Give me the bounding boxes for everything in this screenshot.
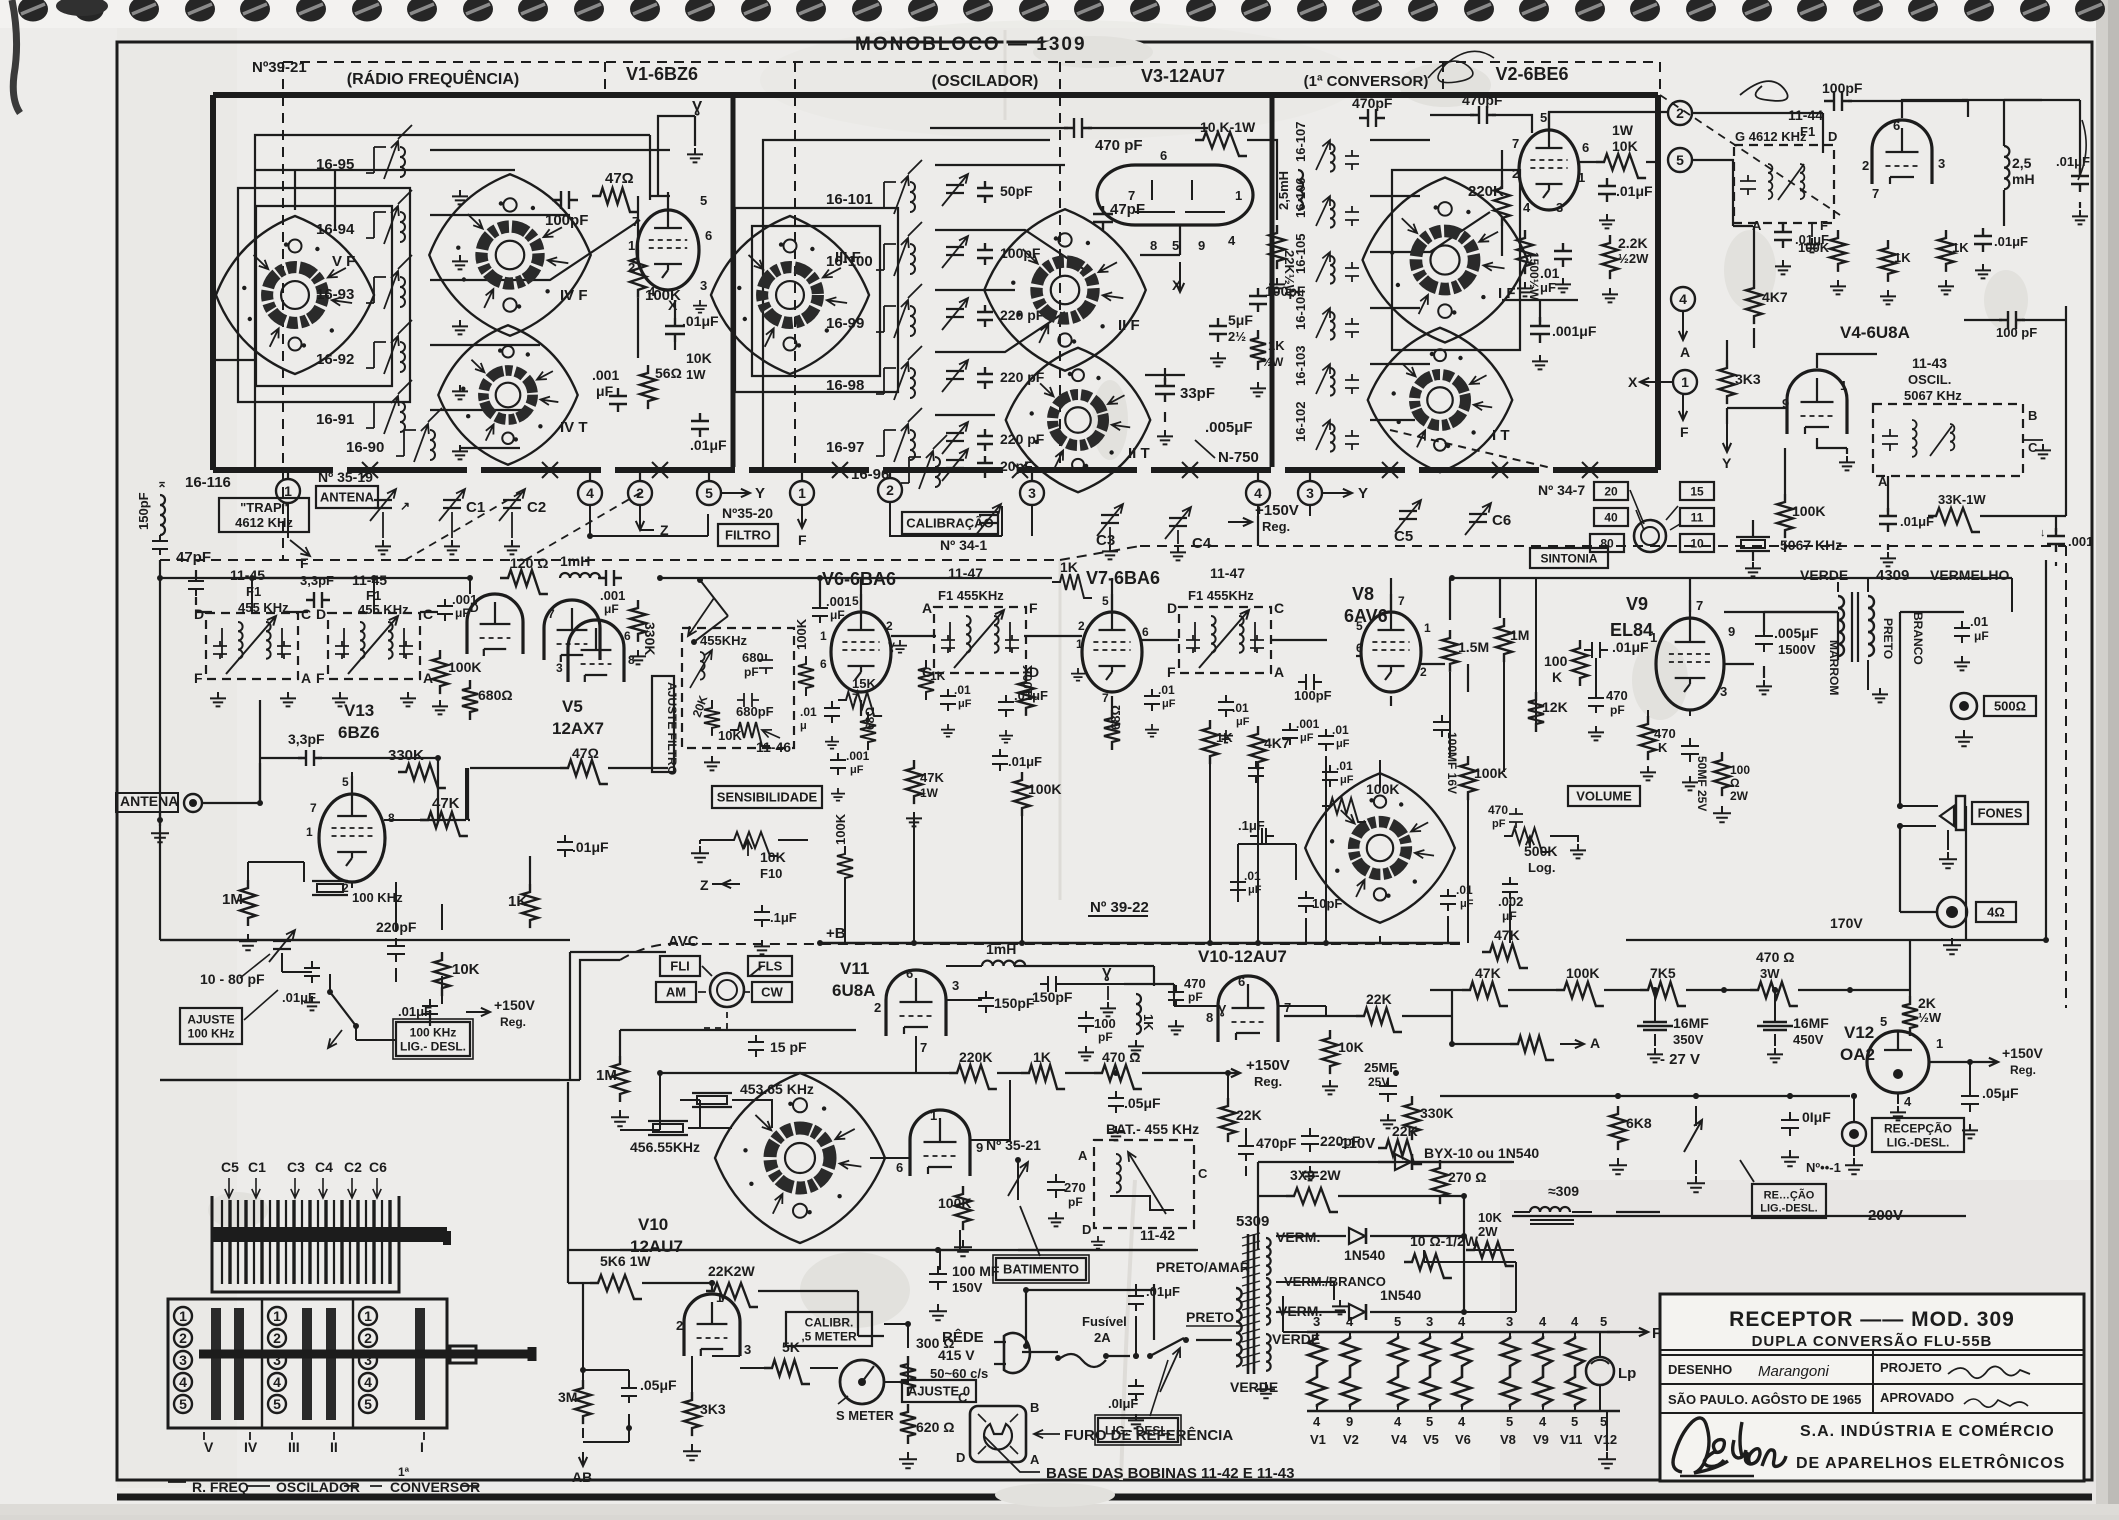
svg-text:5: 5: [1172, 238, 1179, 253]
svg-text:.005μF: .005μF: [1205, 419, 1253, 436]
capacitor 470pF conv: [1359, 109, 1385, 127]
heater F arrow: [1619, 1331, 1621, 1333]
svg-text:150pF: 150pF: [994, 995, 1035, 1011]
svg-text:μF: μF: [1540, 280, 1556, 295]
svg-text:F: F: [194, 670, 203, 686]
capacitor .05uF v10b: [621, 1381, 637, 1403]
capacitor .001uF v6 b: [830, 753, 846, 775]
capacitor .001uF v2: [1530, 317, 1550, 343]
svg-text:SINTONIA: SINTONIA: [1540, 551, 1597, 565]
svg-text:V12: V12: [1594, 1432, 1617, 1447]
svg-text:10.K-1W: 10.K-1W: [1200, 119, 1256, 135]
svg-text:V10-12AU7: V10-12AU7: [1198, 947, 1287, 966]
coil bank 16-99: [826, 284, 922, 338]
svg-text:4: 4: [364, 1374, 372, 1390]
svg-text:16-91: 16-91: [316, 411, 354, 428]
svg-text:16-106: 16-106: [1293, 178, 1308, 218]
svg-text:.05μF: .05μF: [640, 1377, 677, 1393]
svg-text:680pF: 680pF: [736, 704, 774, 719]
svg-text:II: II: [330, 1439, 338, 1455]
resistor 1K v7: [1202, 720, 1218, 764]
svg-text:A: A: [1878, 474, 1888, 489]
svg-text:7: 7: [310, 801, 317, 815]
svg-text:100K: 100K: [448, 659, 481, 675]
svg-text:- 27 V: - 27 V: [1660, 1051, 1700, 1068]
capacitor 150pF v11a: [978, 991, 994, 1013]
svg-text:8: 8: [1150, 238, 1157, 253]
svg-text:620 Ω: 620 Ω: [916, 1419, 954, 1435]
svg-text:F1: F1: [246, 584, 261, 599]
svg-text:1M: 1M: [222, 891, 243, 908]
inductor 1mH if: [560, 573, 600, 578]
capacitor 01uF recepcao: [1781, 1112, 1799, 1136]
capacitor .05uF v11: [1108, 1091, 1124, 1113]
delta logo: [1673, 1418, 1786, 1476]
svg-text:100K: 100K: [794, 618, 809, 650]
capacitor .005uF 1500V: [1755, 628, 1773, 652]
svg-text:.01μF: .01μF: [398, 1004, 432, 1019]
resistor 22K 1/2W v2: [1602, 235, 1618, 279]
resistor 22K v11: [1220, 1098, 1236, 1142]
tube V7 6BA6: [1082, 594, 1142, 692]
svg-text:μF: μF: [1460, 898, 1474, 910]
svg-text:100: 100: [1544, 653, 1568, 669]
svg-text:V10: V10: [638, 1215, 668, 1234]
svg-text:220 pF: 220 pF: [1000, 307, 1045, 323]
svg-text:16-95: 16-95: [316, 156, 354, 173]
svg-text:DE APARELHOS ELETRÔNICOS: DE APARELHOS ELETRÔNICOS: [1796, 1453, 2065, 1472]
diode BYX-10: [1395, 1154, 1412, 1170]
rotary wafer AF switch: [1305, 773, 1455, 923]
svg-text:1W: 1W: [1612, 122, 1634, 138]
svg-text:3: 3: [1028, 485, 1036, 501]
svg-text:μF: μF: [1236, 716, 1250, 728]
capacitor 50MF 25V: [1681, 738, 1699, 762]
svg-text:F: F: [1820, 218, 1828, 233]
svg-text:6BZ6: 6BZ6: [338, 723, 380, 742]
svg-text:100: 100: [1094, 1016, 1116, 1031]
svg-text:.01: .01: [954, 683, 971, 697]
svg-text:C5: C5: [1394, 528, 1413, 545]
svg-text:5μF: 5μF: [1228, 312, 1253, 328]
resistor 1K v11: [1021, 1065, 1065, 1089]
svg-text:100K: 100K: [1366, 781, 1399, 797]
svg-text:R. FREQ: R. FREQ: [192, 1479, 249, 1495]
svg-text:11-47: 11-47: [1210, 565, 1245, 581]
wire osc bank to wafer: [935, 165, 1085, 415]
svg-text:6: 6: [624, 629, 631, 643]
svg-text:V2: V2: [1343, 1432, 1359, 1447]
svg-text:μF: μF: [1340, 774, 1354, 786]
svg-text:A: A: [1680, 344, 1690, 360]
svg-text:5: 5: [1394, 1314, 1401, 1329]
capacitor .01uF v13 b: [422, 999, 438, 1021]
svg-text:1K: 1K: [930, 669, 946, 683]
wire v5 to v6 bus: [660, 578, 820, 606]
resistor 22K v10 plate: [1356, 1008, 1402, 1032]
svg-text:Ω: Ω: [1730, 776, 1740, 790]
svg-text:6: 6: [1142, 625, 1149, 639]
tube V11a triode: [886, 970, 946, 1036]
svg-text:16-102: 16-102: [1293, 402, 1308, 442]
svg-text:8: 8: [388, 811, 395, 825]
capacitor 470pF v10: [1168, 985, 1184, 1007]
svg-text:C: C: [1274, 600, 1284, 616]
terminal 1 antenna row: [276, 479, 300, 503]
capacitor .05uF v12: [1961, 1088, 1979, 1112]
svg-text:5: 5: [342, 775, 349, 789]
svg-text:MONOBLOCO — 1309: MONOBLOCO — 1309: [855, 34, 1087, 55]
svg-text:.01μF: .01μF: [1612, 639, 1649, 655]
svg-text:.01μF: .01μF: [1616, 183, 1653, 199]
coil bank 16-93: [316, 255, 412, 309]
svg-text:100K: 100K: [1020, 664, 1035, 696]
svg-text:I: I: [420, 1439, 424, 1455]
capacitor .01uF af: [1440, 889, 1456, 911]
svg-text:1: 1: [364, 1308, 372, 1324]
tube V10a: [1218, 976, 1278, 1042]
ajuste 100 KHz box: [180, 1008, 242, 1044]
crystal filter 4612 KHz dashed box: [1734, 145, 1834, 223]
svg-text:9: 9: [1198, 238, 1205, 253]
capacitor 100pF mid right: [1999, 311, 2025, 329]
svg-text:11-43: 11-43: [1912, 355, 1947, 371]
calibr box: [786, 1312, 872, 1346]
resistor 47K 1W: [906, 760, 922, 804]
svg-text:G 4612 KHz: G 4612 KHz: [1735, 129, 1807, 144]
label calibracao box: [902, 512, 998, 534]
svg-text:5: 5: [364, 1396, 372, 1412]
coil bank 16-107..16-102 conversor: [1293, 122, 1359, 172]
svg-text:4K7: 4K7: [1762, 289, 1788, 305]
svg-text:PROJETO: PROJETO: [1880, 1360, 1942, 1375]
jack 500 ohm: [1951, 693, 1977, 719]
svg-text:3,3pF: 3,3pF: [288, 731, 325, 747]
svg-text:15K: 15K: [852, 676, 876, 691]
svg-text:270 Ω: 270 Ω: [1448, 1169, 1486, 1185]
svg-text:100 pF: 100 pF: [1996, 325, 2037, 340]
svg-text:B: B: [2028, 408, 2037, 423]
resistor 10K-1W osc: [1195, 132, 1247, 156]
resistor 47K right: [1462, 982, 1508, 1006]
svg-text:2: 2: [179, 1330, 187, 1346]
wire V1 plate: [650, 116, 695, 196]
+150V reg arrow v11: [1196, 1069, 1240, 1077]
svg-text:330K: 330K: [642, 622, 658, 655]
svg-text:.001: .001: [846, 749, 870, 763]
trimmer C2: [499, 489, 525, 521]
svg-text:.05μF: .05μF: [1124, 1095, 1161, 1111]
resistor 1M v11: [612, 1056, 628, 1102]
svg-text:+150V: +150V: [494, 997, 536, 1013]
rotary wafer BFO: [715, 1073, 885, 1243]
svg-text:ANTENA: ANTENA: [120, 793, 178, 809]
coil bank 16-92: [316, 320, 412, 374]
svg-text:2½: 2½: [1228, 329, 1246, 344]
svg-text:33K-1W: 33K-1W: [1938, 492, 1986, 507]
svg-text:V4-6U8A: V4-6U8A: [1840, 323, 1910, 342]
coil bank 16-91: [316, 380, 412, 434]
resistor 1M v13: [240, 880, 256, 926]
svg-text:6: 6: [906, 966, 913, 981]
svg-text:+150V: +150V: [2002, 1045, 2044, 1061]
wire bat to -110V: [1257, 1162, 1259, 1250]
wire V9 plate run: [1689, 578, 1691, 612]
svg-text:DESENHO: DESENHO: [1668, 1362, 1732, 1377]
svg-text:↗: ↗: [400, 499, 410, 513]
svg-text:150V: 150V: [952, 1280, 983, 1295]
svg-text:3: 3: [179, 1352, 187, 1368]
svg-text:470: 470: [1606, 688, 1628, 703]
svg-text:11-45: 11-45: [352, 572, 387, 588]
svg-text:F: F: [300, 555, 309, 571]
svg-text:16MF: 16MF: [1793, 1015, 1829, 1031]
svg-text:2: 2: [364, 1330, 372, 1346]
svg-text:11-42: 11-42: [1140, 1227, 1175, 1243]
trimmer C5: [1395, 500, 1421, 532]
svg-text:μF: μF: [1248, 884, 1262, 896]
sensibilidade control: [712, 786, 822, 808]
inductor 2.5 mH right: [2004, 146, 2009, 189]
svg-text:6: 6: [1582, 140, 1589, 155]
resistor 1K to A: [1510, 1036, 1554, 1060]
svg-text:4309: 4309: [1876, 567, 1909, 584]
capacitor 470pF osc top: [1064, 118, 1092, 138]
svg-text:≈309: ≈309: [1548, 1183, 1579, 1199]
svg-text:pF: pF: [1188, 990, 1203, 1004]
svg-text:Y: Y: [755, 485, 765, 502]
svg-text:7: 7: [1872, 186, 1879, 201]
svg-text:100pF: 100pF: [1294, 688, 1332, 703]
svg-text:+B: +B: [826, 925, 846, 942]
resistor 47K lower: [1482, 944, 1528, 968]
svg-text:CW: CW: [761, 985, 783, 1000]
svg-text:6: 6: [820, 657, 827, 671]
svg-text:7: 7: [1696, 598, 1703, 613]
tube V2 6BE6: [1519, 112, 1579, 210]
svg-text:470 Ω: 470 Ω: [1756, 949, 1794, 965]
svg-text:4: 4: [1394, 1414, 1402, 1429]
svg-text:7: 7: [1284, 1000, 1291, 1015]
svg-text:100K: 100K: [833, 813, 848, 845]
svg-text:9: 9: [1728, 624, 1735, 639]
wire terminal links row: [590, 514, 708, 536]
trimmer C4: [1165, 507, 1191, 539]
svg-text:Nº 35-19: Nº 35-19: [318, 469, 373, 485]
coil 16-116 trap: [160, 495, 165, 535]
svg-text:3K3: 3K3: [700, 1401, 726, 1417]
rotary wafer II T: [1006, 348, 1151, 493]
svg-text:47K: 47K: [1494, 927, 1520, 943]
coil bank 16-90: [346, 408, 442, 462]
tube V11b pentode: [910, 1110, 970, 1176]
svg-text:3: 3: [1556, 200, 1563, 215]
svg-text:1: 1: [1936, 1036, 1943, 1051]
svg-text:μF: μF: [958, 698, 972, 710]
resistor 3M: [575, 1380, 591, 1424]
switch matrix circled contacts: [174, 1307, 192, 1325]
resistor 120ohm: [500, 570, 548, 594]
crystal 456.55 KHz: [648, 1121, 688, 1135]
svg-text:½W: ½W: [1262, 355, 1284, 369]
svg-text:IV T: IV T: [560, 419, 588, 436]
svg-text:3W: 3W: [1760, 966, 1780, 981]
svg-text:D: D: [1828, 129, 1837, 144]
resistor 100K right: [1556, 982, 1604, 1006]
wire IF mid bus: [196, 611, 438, 613]
svg-text:5: 5: [700, 193, 707, 208]
svg-text:10K: 10K: [1478, 1210, 1502, 1225]
svg-text:4: 4: [1539, 1414, 1547, 1429]
svg-text:BYX-10 ou 1N540: BYX-10 ou 1N540: [1424, 1145, 1539, 1161]
svg-text:100K: 100K: [1792, 503, 1825, 519]
resistor 68ohm v6: [860, 712, 876, 750]
svg-text:5: 5: [1600, 1314, 1607, 1329]
svg-text:V F: V F: [332, 253, 355, 270]
svg-text:D: D: [1167, 600, 1177, 616]
svg-text:F: F: [798, 532, 807, 548]
svg-text:4: 4: [179, 1374, 187, 1390]
paper shading: [1500, 1180, 2096, 1504]
100KHz lig-desl box: [396, 1022, 470, 1056]
term 2 circle: [1668, 101, 1692, 125]
svg-text:100K: 100K: [1474, 765, 1507, 781]
resistor 330K v13: [398, 764, 446, 788]
svg-text:10K: 10K: [686, 350, 712, 366]
svg-text:5: 5: [1540, 110, 1547, 125]
svg-text:.001: .001: [600, 588, 625, 603]
svg-text:C3: C3: [287, 1159, 305, 1175]
svg-text:Ɣ: Ɣ: [1218, 1002, 1227, 1017]
svg-text:pF: pF: [1610, 703, 1625, 717]
tube V8 6AV6: [1361, 594, 1421, 692]
svg-text:68Ω: 68Ω: [863, 707, 877, 730]
svg-text:V3-12AU7: V3-12AU7: [1141, 66, 1225, 86]
rotary wafer IV T: [438, 325, 577, 464]
svg-text:Fusível: Fusível: [1082, 1314, 1127, 1329]
inner wiring RF rosette: [213, 170, 515, 360]
capacitor .01uF if3: [1218, 695, 1234, 717]
capacitor .01uF mains2: [1128, 1379, 1144, 1401]
capacitor .01uF if2b: [998, 695, 1014, 717]
svg-text:220K: 220K: [959, 1049, 992, 1065]
resistor 10K v13: [434, 952, 450, 996]
svg-text:BAT.- 455 KHz: BAT.- 455 KHz: [1106, 1121, 1199, 1137]
svg-text:5: 5: [179, 1396, 187, 1412]
tube V5 12AX7: [544, 600, 600, 662]
trimmer C1 cap: [439, 489, 465, 521]
svg-text:1: 1: [1235, 188, 1242, 203]
svg-text:⌅: ⌅: [157, 476, 167, 490]
svg-text:½W: ½W: [1918, 1010, 1942, 1025]
170V wire: [1965, 806, 1967, 940]
svg-text:100pF: 100pF: [545, 212, 588, 229]
svg-text:III: III: [288, 1439, 300, 1455]
svg-text:8: 8: [1206, 1010, 1213, 1025]
trimmer C6: [1465, 503, 1491, 535]
bottom heavy border line: [117, 1494, 2092, 1501]
resistor 47K v13: [420, 812, 468, 836]
svg-text:3,3pF: 3,3pF: [300, 573, 334, 588]
capacitor 5uF 2%: [1209, 318, 1227, 342]
svg-text:9: 9: [976, 1140, 983, 1155]
capacitor .01uF v9 grid: [1584, 642, 1608, 658]
crystal 5067 KHz: [1736, 537, 1770, 551]
svg-text:6: 6: [705, 228, 712, 243]
capacitor 100MF 16V: [1433, 715, 1451, 737]
svg-text:.1μF: .1μF: [770, 910, 797, 925]
svg-text:3: 3: [1506, 1314, 1513, 1329]
svg-text:Z: Z: [700, 877, 709, 893]
svg-text:V13: V13: [344, 701, 374, 720]
svg-text:1ª: 1ª: [398, 1465, 410, 1479]
svg-text:4: 4: [1458, 1314, 1466, 1329]
svg-text:AJUSTE: AJUSTE: [187, 1012, 234, 1026]
svg-text:10K: 10K: [1338, 1039, 1364, 1055]
tube V13a half: [467, 594, 523, 656]
nested rect around IIIF wafer: [735, 208, 898, 392]
tube V6 6BA6: [831, 594, 891, 692]
svg-text:K: K: [1658, 740, 1668, 755]
switch matrix hatched bars: [211, 1308, 221, 1420]
svg-text:.01μF: .01μF: [1008, 754, 1042, 769]
wire v2 plate to term2: [1549, 112, 1667, 130]
capacitor 16MF 350V: [1637, 1022, 1673, 1030]
svg-text:C4: C4: [315, 1159, 333, 1175]
wire verticals V6 V7 screens: [861, 578, 1391, 716]
svg-text:330K: 330K: [1420, 1105, 1453, 1121]
jack 4 ohm: [1937, 897, 1967, 927]
svg-text:7: 7: [548, 607, 555, 621]
svg-text:Nº39-21: Nº39-21: [252, 59, 307, 76]
svg-text:C3: C3: [1096, 532, 1115, 549]
svg-text:Nº 34-7: Nº 34-7: [1538, 482, 1585, 498]
svg-text:.05μF: .05μF: [1982, 1085, 2019, 1101]
resistor 1500ohm 1/2W: [1517, 230, 1533, 274]
svg-text:AVC: AVC: [668, 933, 699, 950]
svg-text:22K: 22K: [1392, 1123, 1418, 1139]
svg-text:μF: μF: [850, 764, 864, 776]
pen scribble top right: [1428, 51, 1494, 82]
tube V3 12AU7 horizontal: [1097, 165, 1253, 225]
svg-text:Reg.: Reg.: [1254, 1074, 1282, 1089]
svg-text:22K: 22K: [1366, 991, 1392, 1007]
wire conv bank: [1370, 140, 1490, 420]
svg-text:VERDE: VERDE: [1800, 567, 1848, 583]
svg-text:5: 5: [273, 1396, 281, 1412]
svg-text:.01: .01: [1158, 683, 1175, 697]
svg-text:A: A: [922, 600, 932, 616]
svg-text:22K: 22K: [1236, 1107, 1262, 1123]
svg-text:2: 2: [1078, 619, 1085, 633]
svg-text:V6: V6: [1455, 1432, 1471, 1447]
svg-text:pF: pF: [1492, 818, 1506, 830]
svg-text:1: 1: [1578, 170, 1585, 185]
svg-text:3: 3: [1720, 684, 1727, 699]
wire fones-500ohm column: [1899, 611, 1901, 613]
capacitor .01uF sw: [1230, 875, 1246, 897]
svg-text:5: 5: [1880, 1014, 1887, 1029]
coil bank 16-101: [826, 160, 922, 214]
svg-text:B: B: [1030, 1400, 1039, 1415]
inductor 2.5mH: [1298, 170, 1303, 210]
svg-text:3: 3: [1426, 1314, 1433, 1329]
svg-text:100 KHz: 100 KHz: [410, 1025, 457, 1039]
svg-text:A: A: [301, 670, 311, 686]
svg-text:μF: μF: [1162, 698, 1176, 710]
trimmer C1: [370, 489, 396, 521]
svg-text:1500V: 1500V: [1778, 642, 1816, 657]
